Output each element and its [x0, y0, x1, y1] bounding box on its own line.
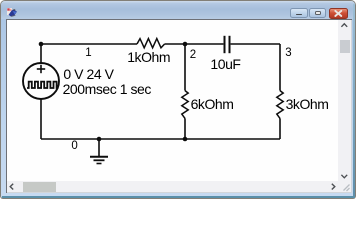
client area — [7, 20, 351, 192]
client border — [6, 19, 352, 194]
minimize button — [290, 8, 308, 18]
white canvas — [7, 20, 338, 181]
horizontal scrollbar thumb — [23, 182, 56, 192]
value label 1kOhm for R1 — [127, 50, 170, 64]
node label 2 — [190, 49, 196, 61]
title bar icon — [6, 7, 18, 18]
node label 3 — [285, 47, 291, 59]
junction dot node 2 — [183, 42, 188, 47]
value label 200msec 1 sec for V1 — [63, 82, 151, 96]
maximize button — [309, 8, 327, 18]
resize grip — [344, 185, 350, 192]
bottom wire — [41, 138, 280, 140]
right arrow — [332, 184, 335, 190]
right column wire upper — [279, 44, 281, 91]
title bar gradient — [1, 1, 355, 19]
voltage source V1 pulse waveform symbol — [27, 82, 58, 88]
node label 0 — [71, 140, 77, 152]
junction dot node 0 below 6kOhm — [183, 137, 188, 142]
resistor R2 6kOhm — [182, 91, 188, 119]
value label 10uF for C1 — [210, 57, 240, 71]
junction dot node 0 at ground — [97, 137, 102, 142]
resistor R1 1kOhm — [137, 39, 165, 48]
left column wire upper — [40, 44, 42, 63]
right column wire lower — [279, 118, 281, 139]
value label 0 V 24 V for V1 — [63, 67, 113, 81]
resistor R3 3kOhm — [277, 91, 283, 119]
close button — [329, 8, 348, 19]
up arrow — [341, 24, 347, 27]
middle column wire upper — [184, 44, 186, 91]
node label 1 — [85, 47, 91, 59]
right frame shading — [353, 4, 355, 197]
value label 3kOhm for R3 — [286, 97, 329, 111]
voltage source V1 polarity + mark — [37, 65, 45, 73]
wire capacitor to node3 — [231, 43, 280, 45]
vertical scrollbar thumb — [340, 40, 350, 53]
left column wire lower — [40, 99, 42, 139]
middle column wire lower — [184, 118, 186, 139]
voltage source V1 pulse source body — [23, 63, 59, 99]
ground — [90, 139, 108, 164]
junction dot node 1 at source top — [39, 42, 44, 47]
bottom frame shading — [2, 196, 355, 198]
wire resistor to capacitor — [165, 43, 224, 45]
left arrow — [10, 184, 13, 190]
value label 6kOhm for R2 — [191, 97, 234, 111]
capacitor C1 10uF — [225, 36, 230, 53]
wire top-left to resistor — [41, 43, 137, 45]
down arrow — [341, 175, 347, 178]
